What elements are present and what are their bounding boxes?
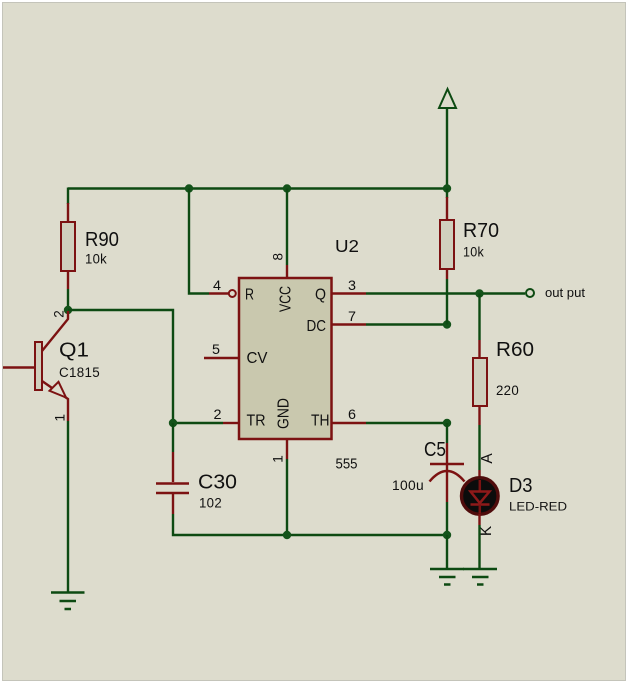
capacitor C30 bbox=[156, 452, 189, 514]
pin 4 stub bbox=[209, 292, 228, 294]
svg-text:A: A bbox=[479, 453, 496, 464]
svg-text:Q: Q bbox=[315, 287, 326, 304]
svg-text:C5: C5 bbox=[424, 439, 446, 461]
pin 7 stub DC bbox=[332, 323, 366, 325]
pin 8 stub VCC bbox=[286, 265, 288, 278]
svg-text:5: 5 bbox=[212, 342, 220, 357]
svg-text:DC: DC bbox=[307, 318, 327, 335]
wire pin6 to C5 column bbox=[366, 422, 447, 424]
wire GND pin to bottom bus bbox=[286, 459, 288, 535]
ground symbol right (LED) bbox=[463, 569, 497, 585]
wire power arrow to top bus bbox=[446, 108, 448, 189]
junction top bus / R70 column bbox=[443, 184, 451, 192]
resistor R60 bbox=[473, 340, 487, 425]
wire pin4 column from bus bbox=[189, 189, 209, 294]
svg-text:GND: GND bbox=[276, 398, 293, 429]
wire C30 to bottom bus bbox=[173, 514, 447, 535]
pin 4 inversion bubble bbox=[229, 290, 236, 297]
svg-text:6: 6 bbox=[348, 407, 356, 422]
wire collector junction to C30 column bbox=[68, 310, 173, 423]
wire pin7 to R70 column bbox=[366, 323, 447, 325]
ground symbol right (C5) bbox=[430, 569, 464, 585]
LED D3 bbox=[462, 470, 499, 525]
svg-text:LED-RED: LED-RED bbox=[509, 502, 567, 514]
pin 5 stub CV bbox=[204, 357, 238, 359]
svg-text:C30: C30 bbox=[198, 472, 237, 494]
svg-text:102: 102 bbox=[199, 496, 222, 511]
node TH junction bbox=[443, 419, 451, 427]
wire R70 column upper bbox=[446, 189, 448, 199]
wire C5 to bottom bus bbox=[446, 502, 448, 535]
resistor R70 bbox=[440, 197, 454, 279]
wire bottom bus to right ground bbox=[446, 535, 448, 568]
wire R70 to DC junction bbox=[446, 279, 448, 325]
svg-text:10k: 10k bbox=[85, 252, 107, 267]
wire C5 column from TH junction bbox=[446, 423, 448, 443]
svg-text:100u: 100u bbox=[392, 478, 424, 493]
wire VCC pin column from bus bbox=[286, 189, 288, 266]
wire LED cathode to ground bbox=[478, 525, 480, 568]
svg-text:R60: R60 bbox=[496, 339, 534, 361]
node collector junction bbox=[64, 306, 72, 314]
svg-text:D3: D3 bbox=[509, 475, 533, 497]
ground symbol left bbox=[51, 593, 85, 610]
svg-text:TH: TH bbox=[311, 413, 330, 430]
pin 6 stub TH bbox=[332, 422, 366, 424]
pin 1 stub GND bbox=[286, 440, 288, 459]
svg-text:R90: R90 bbox=[85, 229, 119, 251]
svg-text:R: R bbox=[245, 287, 254, 304]
svg-text:8: 8 bbox=[271, 253, 286, 261]
wire pin3 to output terminal bbox=[366, 292, 525, 294]
wire top bus bbox=[68, 187, 447, 189]
svg-text:555: 555 bbox=[336, 457, 358, 473]
pin 2 stub TR bbox=[223, 422, 238, 424]
svg-text:2: 2 bbox=[214, 407, 222, 422]
wire Q1 emitter to ground bbox=[67, 421, 69, 592]
node bottom bus GND pin junction bbox=[283, 531, 291, 539]
transistor Q1 bbox=[3, 311, 68, 421]
svg-text:VCC: VCC bbox=[278, 286, 295, 312]
svg-text:C1815: C1815 bbox=[59, 365, 100, 380]
wire R60 to LED anode bbox=[478, 425, 480, 470]
svg-text:2: 2 bbox=[52, 310, 67, 318]
svg-text:U2: U2 bbox=[335, 236, 359, 256]
svg-text:1: 1 bbox=[53, 414, 68, 422]
wire output junction to R60 bbox=[478, 294, 480, 341]
node DC junction bbox=[443, 320, 451, 328]
svg-text:Q1: Q1 bbox=[59, 340, 89, 362]
svg-text:10k: 10k bbox=[463, 245, 484, 260]
svg-text:220: 220 bbox=[496, 383, 519, 398]
node bottom bus C5 junction bbox=[443, 531, 451, 539]
svg-text:out put: out put bbox=[545, 286, 586, 300]
capacitor C5 bbox=[430, 443, 465, 502]
junction top bus / pin4 column bbox=[185, 184, 193, 192]
pin 3 stub Q bbox=[332, 292, 366, 294]
IC U2 555 body bbox=[239, 278, 332, 439]
svg-text:CV: CV bbox=[247, 350, 269, 367]
svg-text:TR: TR bbox=[247, 413, 266, 430]
svg-text:1: 1 bbox=[271, 455, 286, 463]
node output junction bbox=[475, 289, 483, 297]
wire bottom bus bbox=[172, 423, 174, 452]
power symbol VCC arrow bbox=[439, 89, 456, 108]
wire TR from C30 column bbox=[173, 422, 223, 424]
junction top bus / VCC pin column bbox=[283, 184, 291, 192]
node TR junction bbox=[169, 419, 177, 427]
svg-text:3: 3 bbox=[348, 278, 356, 293]
svg-text:4: 4 bbox=[213, 278, 222, 293]
wire bus corner down to R90 bbox=[67, 188, 69, 205]
terminal out put bbox=[526, 289, 534, 297]
svg-text:7: 7 bbox=[348, 309, 356, 324]
wire R90 to collector junction bbox=[67, 289, 69, 310]
resistor R90 bbox=[61, 203, 75, 289]
svg-text:R70: R70 bbox=[463, 220, 499, 242]
